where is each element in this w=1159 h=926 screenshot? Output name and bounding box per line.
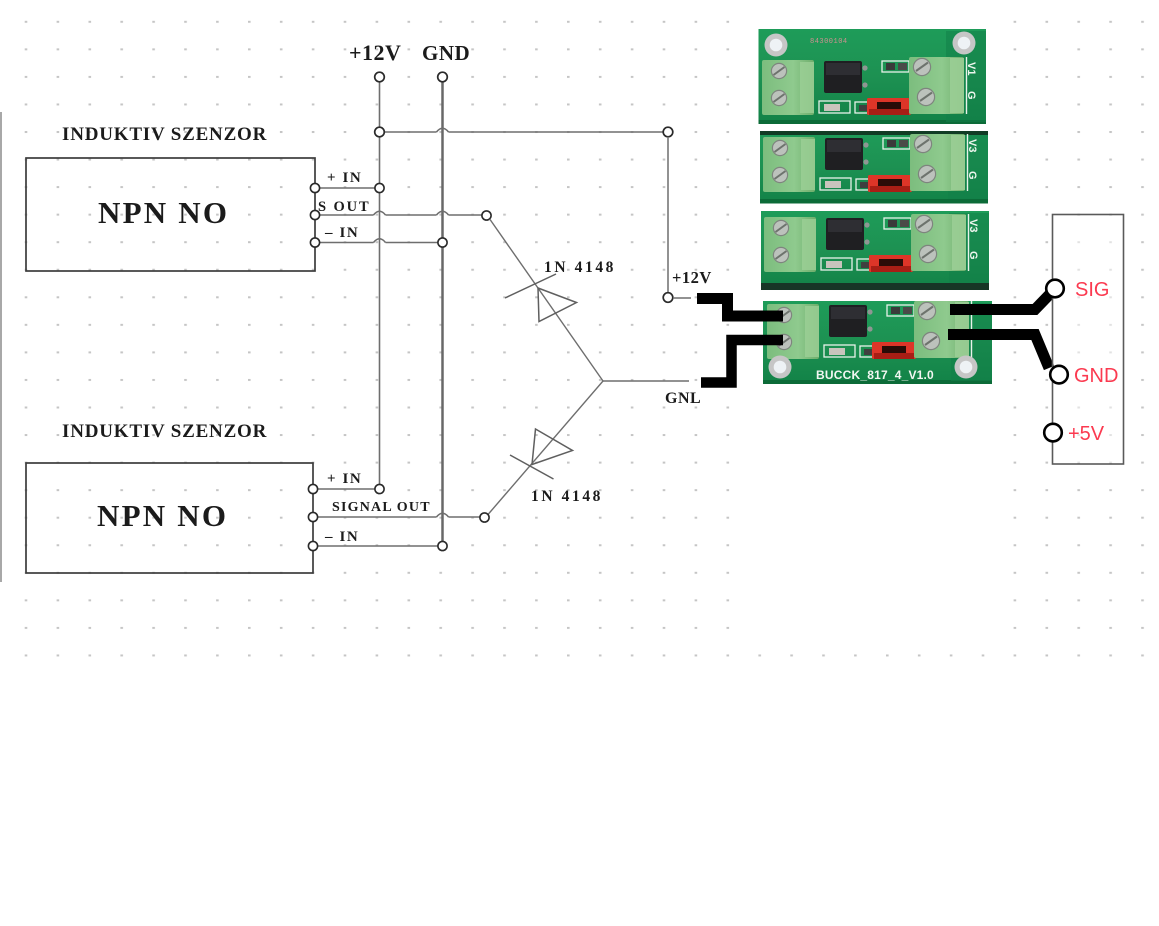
svg-text:NPN NO: NPN NO — [97, 498, 228, 533]
diode D1 1N4148 — [505, 274, 577, 322]
PCB module BUCCK_817_4_V1.0 — [759, 29, 993, 384]
pcb strip 1 label G — [965, 91, 977, 100]
label - IN (sensor 1) — [324, 225, 359, 241]
node +12V terminal above PCB — [663, 293, 673, 303]
terminal sensor2 -IN — [308, 541, 317, 550]
node GND rail bottom end — [438, 541, 447, 550]
pcb strip 3 board — [761, 211, 989, 290]
svg-text:1N 4148: 1N 4148 — [544, 259, 616, 276]
pcb strip 2 components — [763, 134, 968, 192]
pcb strip 1 label V1 — [965, 62, 977, 75]
+12V rail top terminal — [375, 72, 385, 82]
pcb strip 3 label G — [967, 251, 979, 260]
pcb strip 4 board — [763, 301, 992, 384]
terminal sensor2 +IN — [308, 484, 317, 493]
wire sensor1 S OUT with hops over both rails — [320, 211, 482, 215]
thick wire W2 (GNL to PCB ch4 left bottom) — [701, 340, 783, 383]
label 1N 4148 (D1) — [544, 259, 616, 276]
label 1N 4148 (D2) — [531, 488, 603, 505]
GND rail top terminal — [438, 72, 448, 82]
wire sensor2 +IN to +12V rail end — [318, 488, 376, 490]
svg-text:NPN NO: NPN NO — [98, 195, 229, 230]
wire sensor2 SIGNAL OUT with hop over GND rail — [318, 513, 480, 517]
wire +12V distribution (y=132) with hop over GND rail — [384, 128, 664, 132]
wire sensor1 +IN to +12V rail — [320, 187, 376, 189]
svg-text:INDUKTIV SZENZOR: INDUKTIV SZENZOR — [62, 421, 267, 442]
node S OUT right end — [482, 211, 491, 220]
svg-text:+5V: +5V — [1068, 423, 1105, 445]
thick wire W4 (PCB ch4 right bottom to GND) — [948, 335, 1049, 369]
label +5V — [1068, 423, 1105, 445]
label GNL — [665, 390, 701, 407]
svg-text:+12V: +12V — [672, 268, 712, 287]
terminal sensor1 +IN — [310, 183, 319, 192]
node SIGNAL OUT right end — [480, 513, 489, 522]
svg-text:V1: V1 — [965, 62, 977, 75]
svg-text:INDUKTIV SZENZOR: INDUKTIV SZENZOR — [62, 124, 267, 145]
junction on +12V rail at y=132 — [375, 127, 385, 137]
pcb strip 4 mounting hole left — [769, 356, 792, 379]
svg-text:– IN: – IN — [324, 225, 359, 241]
svg-text:SIGNAL OUT: SIGNAL OUT — [332, 500, 431, 515]
connector J1 box — [1053, 215, 1124, 465]
pcb strip 2 label V3 — [966, 139, 978, 152]
label GND — [1074, 365, 1118, 387]
thick wire W3 (PCB ch4 right top to SIG) — [950, 295, 1050, 310]
terminal sensor2 SIGNAL OUT — [308, 512, 317, 521]
junction -IN on GND rail — [438, 238, 447, 247]
label SIGNAL OUT (sensor 2) — [332, 500, 431, 515]
pcb strip 2 label G — [966, 171, 978, 180]
svg-text:GND: GND — [1074, 365, 1118, 387]
svg-text:SIG: SIG — [1075, 279, 1109, 301]
label +12V (top) — [349, 40, 401, 65]
label INDUKTIV SZENZOR (sensor 1) — [62, 124, 267, 145]
photo white background — [744, 14, 1012, 651]
pcb strip 4 silkscreen BUCCK_817_4_V1.0 — [816, 368, 934, 382]
wire diagonal SIGNAL OUT to GNL node — [488, 381, 603, 515]
pin +5V circle — [1044, 424, 1062, 442]
label NPN NO (sensor 1) — [98, 195, 229, 230]
diode D2 1N4148 — [510, 429, 573, 479]
pcb strip 3 label V3 — [967, 219, 979, 232]
svg-text:1N 4148: 1N 4148 — [531, 488, 603, 505]
label NPN NO (sensor 2) — [97, 498, 228, 533]
GND rail — [441, 82, 444, 542]
svg-text:V3: V3 — [967, 219, 979, 232]
pcb strip 1 components — [762, 57, 967, 115]
svg-text:G: G — [965, 91, 977, 100]
+12V rail — [379, 82, 381, 485]
label + IN (sensor 2) — [327, 471, 362, 487]
svg-text:BUCCK_817_4_V1.0: BUCCK_817_4_V1.0 — [816, 368, 934, 382]
label GND (top) — [422, 41, 470, 65]
wire diagonal S OUT to GNL node — [490, 219, 603, 381]
node +12V rail bottom end — [375, 484, 384, 493]
pcb strip 4 components — [767, 301, 972, 359]
svg-text:GND: GND — [422, 41, 470, 65]
svg-text:– IN: – IN — [324, 529, 359, 545]
wire sensor2 -IN to GND rail end — [318, 545, 438, 547]
svg-text:G: G — [966, 171, 978, 180]
pcb strip 1 serial text — [810, 38, 848, 46]
left edge artifact line — [0, 112, 2, 582]
svg-text:G: G — [967, 251, 979, 260]
wire sensor1 -IN to GND rail with hop over +12V rail — [320, 239, 438, 243]
node circle right end of distribution wire — [663, 127, 673, 137]
terminal sensor1 S OUT — [310, 210, 319, 219]
svg-text:+12V: +12V — [349, 40, 401, 65]
terminal sensor1 -IN — [310, 238, 319, 247]
pcb strip 2 board — [760, 131, 988, 204]
pin GND circle — [1050, 366, 1068, 384]
sensor box B1 — [26, 158, 315, 271]
pin SIG circle — [1046, 280, 1064, 298]
svg-text:+ IN: + IN — [327, 471, 362, 487]
junction +IN on +12V rail — [375, 183, 384, 192]
svg-text:+ IN: + IN — [327, 170, 362, 186]
svg-text:GNL: GNL — [665, 390, 701, 407]
thick wire W1 (+12V node to PCB ch4 left top) — [697, 299, 783, 317]
connector J1 inner fade — [1054, 216, 1123, 464]
sensor box B2 — [26, 463, 313, 573]
svg-text:V3: V3 — [966, 139, 978, 152]
wire right +12V drop (x=668) — [667, 137, 669, 293]
wire stub node to black wire — [673, 297, 691, 299]
pcb strip 3 components — [764, 214, 969, 272]
pcb strip 1 board — [759, 29, 987, 124]
label INDUKTIV SZENZOR (sensor 2) — [62, 421, 267, 442]
pcb strip 4 mounting hole right — [955, 356, 978, 379]
label - IN (sensor 2) — [324, 529, 359, 545]
svg-text:84300104: 84300104 — [810, 38, 848, 46]
label S OUT (sensor 1) — [318, 199, 371, 215]
label +12V (node) — [672, 268, 712, 287]
pcb strip 1 mounting hole left — [765, 34, 788, 57]
pcb strip 1 mounting hole right — [953, 32, 976, 55]
svg-text:S OUT: S OUT — [318, 199, 371, 215]
label + IN (sensor 1) — [327, 170, 362, 186]
wire GNL horizontal — [603, 380, 689, 382]
label SIG — [1075, 279, 1109, 301]
